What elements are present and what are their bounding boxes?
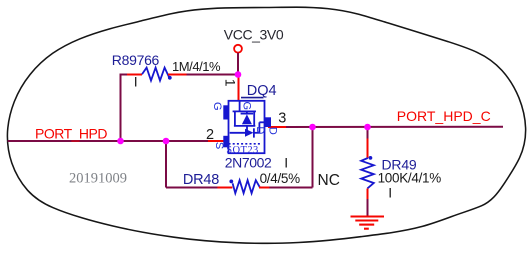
svg-text:DR48: DR48	[183, 172, 219, 188]
pin stub Q pin2	[208, 140, 224, 142]
resistor DR49 stub top	[367, 139, 369, 158]
svg-text:I: I	[388, 185, 392, 201]
wire R89766 to node	[187, 74, 239, 76]
transistor DQ4 gate dashes	[229, 143, 263, 145]
resistor DR49 stub bottom	[367, 189, 369, 200]
transistor DQ4 body diode	[242, 114, 252, 124]
svg-text:I: I	[284, 155, 288, 171]
transistor DQ4 pad pin3	[265, 117, 272, 127]
wire VCC down	[237, 53, 239, 75]
svg-text:2: 2	[206, 127, 214, 143]
svg-text:1: 1	[223, 79, 239, 87]
label DQ4 underline	[241, 97, 264, 99]
resistor DR49 zigzag	[361, 158, 374, 188]
transistor DQ4 pad pin2	[223, 136, 229, 148]
wire DR48 loop bottom left	[166, 187, 218, 189]
svg-text:DQ4: DQ4	[247, 83, 277, 99]
ground symbol	[351, 217, 385, 229]
svg-text:PORT_HPD_C: PORT_HPD_C	[397, 108, 491, 124]
svg-text:100K/4/1%: 100K/4/1%	[378, 171, 442, 186]
junction node N2	[117, 138, 124, 145]
wire corner to R89766 left	[120, 74, 129, 76]
junction node N5	[364, 124, 371, 131]
resistor DR49 pin1 dot	[369, 156, 373, 160]
resistor R89766 zigzag	[142, 68, 169, 81]
resistor DR48 zigzag	[233, 180, 260, 193]
wire pin3 to right	[286, 126, 503, 128]
transistor DQ4 pad pin1	[223, 105, 228, 119]
junction node N3	[163, 138, 170, 145]
wire N3 down to DR48 loop	[165, 141, 167, 188]
junction node N1	[235, 71, 242, 78]
wire DR48 loop bottom right	[269, 187, 312, 189]
svg-text:VCC_3V0: VCC_3V0	[224, 27, 284, 43]
resistor DR48 pin1 dot	[229, 180, 233, 184]
resistor R89766 pin1 dot	[168, 76, 172, 80]
wire vertical to R89766	[120, 75, 122, 142]
junction node N4	[309, 124, 316, 131]
svg-text:D: D	[267, 127, 279, 135]
svg-text:0/4/5%: 0/4/5%	[260, 171, 301, 186]
wire DR48 loop up to pin3 node	[312, 127, 314, 188]
pin stub Q pin3	[268, 126, 287, 128]
svg-text:G: G	[211, 102, 223, 111]
svg-text:3: 3	[278, 111, 286, 127]
wire N5 down	[367, 127, 369, 139]
svg-text:20191009: 20191009	[69, 171, 127, 187]
svg-text:D: D	[254, 126, 266, 134]
wire PORT_HPD horizontal	[8, 140, 208, 142]
svg-text:PORT_HPD: PORT_HPD	[35, 125, 107, 141]
svg-text:I: I	[134, 73, 138, 89]
svg-text:1M/4/1%: 1M/4/1%	[172, 59, 221, 74]
resistor R89766 stub right	[168, 74, 187, 76]
wire DR49 to ground	[367, 199, 369, 216]
resistor DR48 stub left	[217, 187, 232, 189]
svg-text:NC: NC	[318, 172, 340, 189]
pin stub Q gate	[238, 75, 240, 102]
svg-text:R89766: R89766	[112, 52, 160, 68]
svg-text:G: G	[241, 102, 253, 111]
transistor DQ4 body	[229, 101, 265, 153]
resistor R89766 stub left	[127, 74, 142, 76]
svg-text:2N7002: 2N7002	[225, 155, 272, 171]
resistor DR48 stub right	[259, 187, 270, 189]
VCC circle terminal	[234, 45, 242, 53]
transistor DQ4 arrow	[245, 129, 254, 137]
svg-text:S: S	[213, 142, 225, 149]
